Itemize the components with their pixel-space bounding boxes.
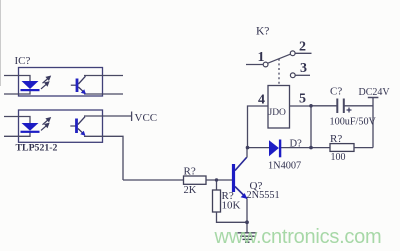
svg-text:5: 5 bbox=[299, 92, 306, 107]
svg-text:DC24V: DC24V bbox=[359, 87, 391, 98]
wire contact 3 bbox=[295, 74, 310, 76]
transistor Q1 base bar bbox=[232, 164, 235, 192]
wire R100 to rail corner bbox=[354, 147, 373, 149]
wire ch2 cathode bbox=[4, 132, 30, 136]
wire ch1 cathode bbox=[4, 90, 30, 94]
dashed actuator link bbox=[278, 59, 280, 86]
switch arm bbox=[268, 54, 291, 63]
svg-text:D?: D? bbox=[290, 139, 303, 150]
wire ch1 anode bbox=[4, 76, 30, 82]
wire R2K to base bbox=[206, 179, 233, 181]
capacitor C plate left bbox=[336, 99, 338, 114]
junction dot node5 top bbox=[309, 104, 313, 108]
switch K wire pole 1 bbox=[246, 64, 263, 66]
wire ch2 anode bbox=[4, 117, 30, 124]
wire ch1 emitter out bbox=[84, 93, 123, 95]
svg-text:2K: 2K bbox=[184, 185, 197, 196]
svg-text:JDO: JDO bbox=[269, 108, 287, 118]
wire cap to DC24V corner bbox=[344, 105, 373, 107]
resistor R10K body bbox=[213, 190, 221, 212]
svg-text:K?: K? bbox=[256, 26, 269, 38]
relay coil box JDO bbox=[268, 86, 290, 129]
light arrows ch2 bbox=[41, 118, 50, 131]
DC24V terminal bar bbox=[368, 97, 379, 99]
wire pin5 node to cap bbox=[311, 105, 337, 107]
svg-text:3: 3 bbox=[300, 61, 307, 76]
switch contact circle 2 bbox=[290, 51, 295, 56]
svg-text:1N4007: 1N4007 bbox=[268, 160, 301, 171]
ground symbol bbox=[238, 233, 258, 242]
transistor collector lead bbox=[235, 148, 247, 171]
diode D triangle bbox=[269, 140, 279, 156]
light arrows ch1 bbox=[41, 76, 50, 89]
scan artifact left edge bbox=[0, 0, 2, 86]
phototransistor ch2 bbox=[70, 117, 85, 136]
svg-text:IC?: IC? bbox=[15, 55, 31, 67]
wire collector node to diode anode bbox=[248, 147, 270, 149]
transistor Q1 emitter arrow bbox=[241, 193, 248, 199]
junction dot node5 bottom bbox=[309, 146, 313, 150]
wire DC24V rail down bbox=[372, 98, 374, 148]
wire node5 down bbox=[310, 106, 312, 148]
wire relay pin5 bbox=[290, 105, 312, 107]
svg-text:www.cntronics.com: www.cntronics.com bbox=[214, 226, 382, 248]
transistor Q1 emitter diagonal bbox=[235, 187, 247, 199]
svg-text:1: 1 bbox=[258, 50, 265, 65]
phototransistor ch1 bbox=[71, 76, 86, 94]
transistor Q1 collector diagonal bbox=[235, 158, 247, 171]
resistor R100 body bbox=[330, 144, 354, 152]
wire ch2 emitter to base run bbox=[84, 136, 123, 180]
wire ground stem bbox=[246, 222, 248, 233]
resistor R2K body bbox=[184, 176, 207, 184]
wire ch1 collector out bbox=[84, 75, 123, 77]
svg-text:4: 4 bbox=[258, 93, 265, 108]
svg-text:100uF/50V: 100uF/50V bbox=[330, 116, 377, 127]
capacitor C plate right bbox=[343, 99, 345, 114]
optocoupler U box channel 2 bbox=[19, 110, 103, 142]
junction dot emitter/ground bbox=[245, 220, 249, 224]
wire junction to R10K bbox=[216, 180, 218, 190]
wire contact 2 bbox=[295, 52, 311, 54]
transistor emitter lead vertical bbox=[246, 199, 248, 223]
svg-text:R?: R? bbox=[184, 165, 196, 177]
svg-text:10K: 10K bbox=[222, 200, 241, 212]
junction dot base/R10K bbox=[215, 178, 218, 181]
LED ch2 bbox=[21, 123, 40, 133]
svg-text:2N5551: 2N5551 bbox=[247, 190, 280, 201]
wire ch2 collector to VCC bbox=[84, 115, 131, 117]
wire base run to R2K bbox=[123, 179, 184, 181]
optocoupler U box channel 1 bbox=[19, 68, 103, 97]
svg-text:VCC: VCC bbox=[135, 112, 158, 124]
wire diode cathode to node bbox=[280, 147, 311, 149]
svg-text:100: 100 bbox=[331, 152, 346, 163]
svg-text:TLP521-2: TLP521-2 bbox=[16, 143, 58, 154]
wire R10K to emitter node bbox=[217, 212, 248, 222]
svg-text:C?: C? bbox=[330, 86, 342, 98]
VCC terminal bar bbox=[131, 112, 133, 122]
switch pole contact circle 1 bbox=[263, 62, 268, 67]
switch contact circle 3 bbox=[290, 73, 295, 78]
junction dot collector node bbox=[246, 146, 250, 150]
svg-text:R?: R? bbox=[330, 133, 342, 145]
wire node to R100 bbox=[311, 147, 330, 149]
wire collector node to relay pin4 bbox=[248, 106, 269, 148]
capacitor plus sign bbox=[347, 108, 352, 113]
svg-text:2: 2 bbox=[299, 40, 306, 55]
LED ch1 bbox=[21, 81, 40, 91]
diode D cathode bar bbox=[279, 140, 281, 158]
